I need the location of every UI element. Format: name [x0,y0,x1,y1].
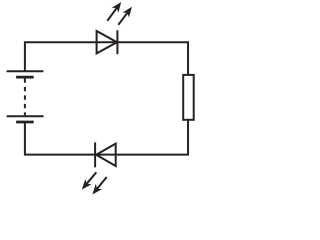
LED D1 light arrow 1 head [112,2,121,13]
battery B1 dashed multi-cell link [24,78,26,115]
LED D2 cathode bar [94,142,96,167]
battery B1 cell 2 short plate (-) [16,121,34,124]
resistor R1 [183,75,194,120]
LED D1 light arrow 2 head [123,7,133,18]
LED D1 cathode bar [116,30,118,54]
LED D2 light arrow 2 shaft [96,177,106,190]
LED D1 light arrow 1 shaft [107,7,117,21]
LED D2 light arrow 1 shaft [86,172,96,184]
LED D2 light arrow 1 head [82,179,92,190]
battery B1 cell 1 short plate (-) [16,76,34,79]
wire: right lower + bottom + left lower [25,120,188,154]
battery B1 cell 2 long plate (+) [7,115,44,117]
LED D2 light arrow 2 head [92,184,102,195]
wire: left upper + top + right upper [25,42,188,74]
battery B1 cell 1 long plate (+) [7,70,44,72]
LED D1 light arrow 2 shaft [118,12,128,25]
LED D1 triangle (anode, pointing right) [97,31,117,53]
LED D2 triangle (anode, pointing left) [96,144,116,166]
